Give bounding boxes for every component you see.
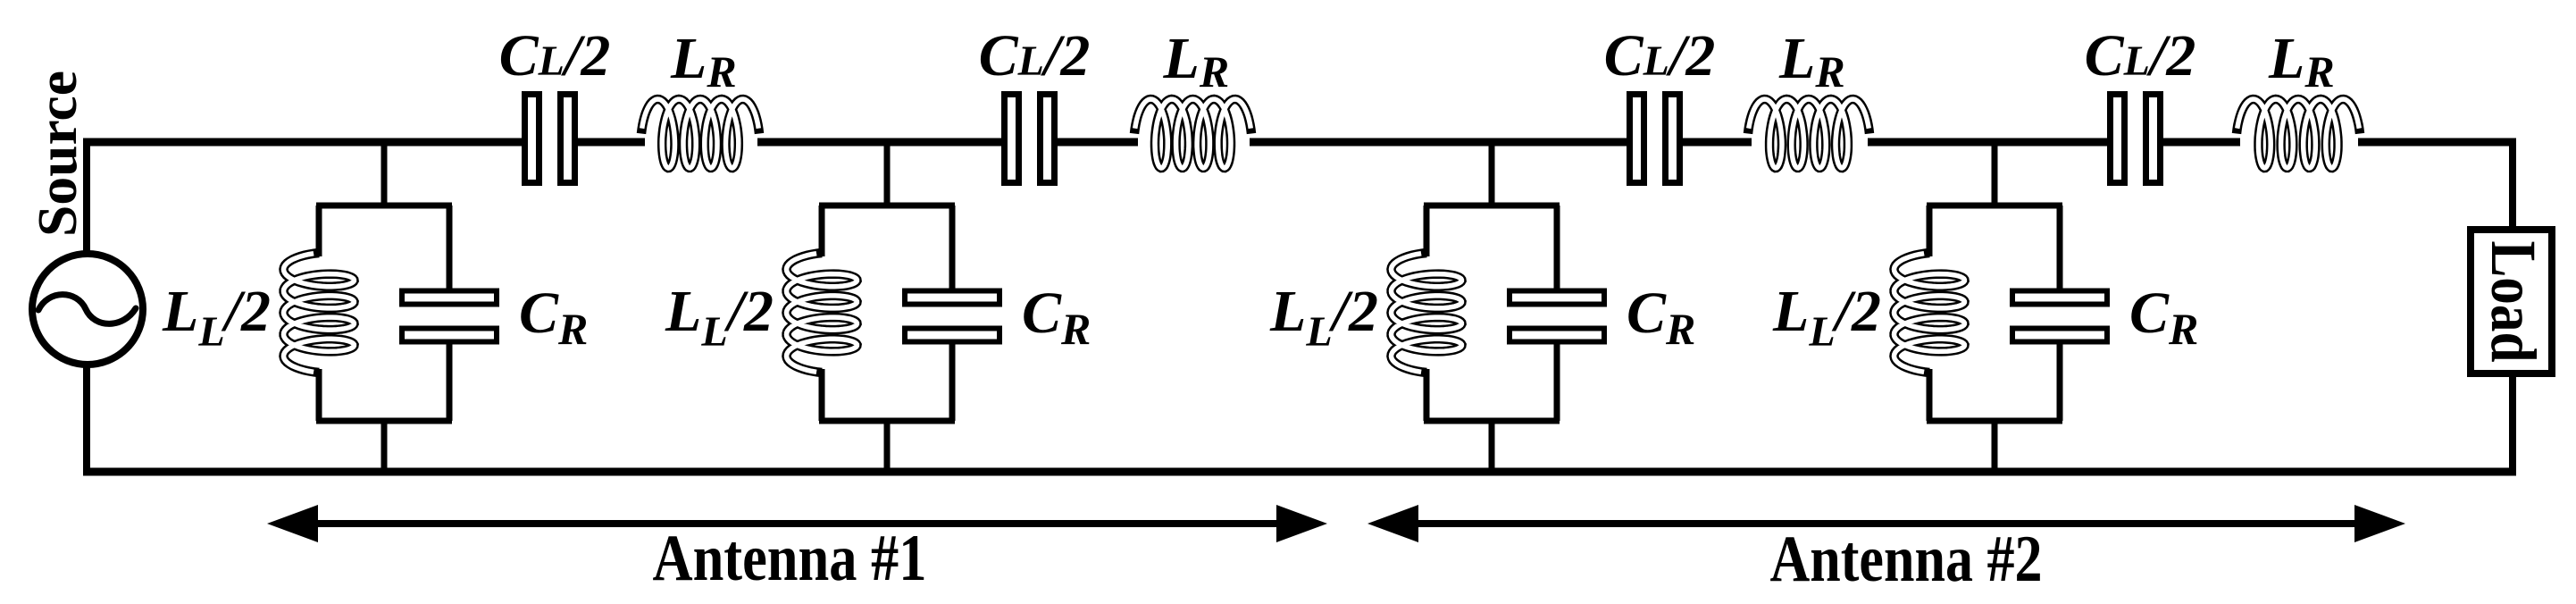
wire tank loop frame 4 (1927, 206, 2062, 421)
wire bottom rail (83, 468, 2516, 476)
inductor LL/2 #3 (1392, 253, 1462, 373)
label LR #1 (670, 26, 737, 96)
label Antenna #1 (653, 522, 927, 595)
svg-text:LR: LR (1778, 26, 1845, 96)
capacitor CL/2 #4 (2111, 95, 2161, 183)
capacitor CR #3 (1510, 291, 1604, 342)
svg-text:Load: Load (2478, 241, 2549, 363)
label LR #4 (2268, 26, 2335, 96)
wire source top lead (83, 138, 90, 255)
wire top rail segment 7 (1868, 138, 2109, 147)
wire top rail segment 1 (83, 138, 523, 147)
inductor LR #4 (2237, 99, 2360, 168)
label CR #2 (1022, 281, 1091, 354)
label CL/2 #4 (2085, 23, 2196, 88)
label CR #4 (2129, 281, 2198, 354)
wire top rail segment 5 (1250, 138, 1628, 147)
svg-text:CL/2: CL/2 (1604, 23, 1716, 88)
inductor LR #1 (641, 99, 759, 168)
wire load top lead (2509, 138, 2516, 231)
wire load bottom lead (2509, 376, 2516, 472)
svg-text:Source: Source (28, 71, 88, 237)
label CR #1 (519, 281, 588, 354)
svg-text:LL/2: LL/2 (1772, 279, 1881, 356)
svg-text:LR: LR (1163, 26, 1230, 96)
wire shunt stub bottom 2 (884, 418, 891, 472)
wire shunt stub bottom 4 (1992, 418, 1998, 472)
wire shunt stub top 2 (884, 142, 891, 208)
wire top rail segment 4 (1057, 138, 1138, 147)
label LL/2 #2 (665, 279, 774, 356)
inductor LR #3 (1748, 99, 1869, 168)
wire top rail segment 9 (2358, 138, 2516, 147)
wire tank loop frame 3 (1424, 206, 1560, 421)
inductor LL/2 #4 (1894, 253, 1965, 373)
wire tank loop frame 2 (819, 206, 955, 421)
inductor LR #2 (1134, 99, 1251, 168)
AC source (Source) (32, 254, 143, 365)
svg-text:CR: CR (519, 281, 588, 354)
wire shunt stub top 1 (381, 142, 388, 208)
label Antenna #2 (1770, 523, 2043, 596)
label LL/2 #3 (1269, 279, 1378, 356)
svg-text:LL/2: LL/2 (1269, 279, 1378, 356)
svg-text:CL/2: CL/2 (2085, 23, 2196, 88)
label LR #2 (1163, 26, 1230, 96)
svg-text:LL/2: LL/2 (162, 279, 271, 356)
wire tank loop frame 1 (316, 206, 452, 421)
svg-text:CR: CR (2129, 281, 2198, 354)
svg-text:CL/2: CL/2 (499, 23, 611, 88)
label Source (28, 71, 88, 237)
svg-text:Antenna #1: Antenna #1 (653, 522, 927, 595)
wire top rail segment 2 (576, 138, 645, 147)
capacitor CR #2 (905, 291, 999, 342)
svg-text:LR: LR (670, 26, 737, 96)
wire top rail segment 8 (2161, 138, 2240, 147)
capacitor CL/2 #1 (525, 95, 575, 183)
capacitor CL/2 #2 (1005, 95, 1055, 183)
wire shunt stub top 4 (1992, 142, 1998, 208)
svg-text:LR: LR (2268, 26, 2335, 96)
wire shunt stub bottom 1 (381, 418, 388, 472)
capacitor CR #1 (402, 291, 497, 342)
svg-text:LL/2: LL/2 (665, 279, 774, 356)
capacitor CR #4 (2012, 291, 2107, 342)
label LL/2 #1 (162, 279, 271, 356)
label CR #3 (1627, 281, 1695, 354)
wire source bottom lead (83, 365, 90, 472)
label CL/2 #1 (499, 23, 611, 88)
svg-text:CR: CR (1022, 281, 1091, 354)
wire top rail segment 6 (1682, 138, 1752, 147)
label LL/2 #4 (1772, 279, 1881, 356)
inductor LL/2 #2 (787, 253, 857, 373)
svg-text:Antenna #2: Antenna #2 (1770, 523, 2043, 596)
arrow Antenna #1 span (267, 505, 1327, 542)
arrow Antenna #2 span (1367, 505, 2405, 542)
svg-text:CL/2: CL/2 (979, 23, 1091, 88)
capacitor CL/2 #3 (1630, 95, 1680, 183)
wire shunt stub top 3 (1489, 142, 1495, 208)
inductor LL/2 #1 (284, 253, 355, 373)
load RL (2471, 230, 2552, 373)
label CL/2 #2 (979, 23, 1091, 88)
wire shunt stub bottom 3 (1489, 418, 1495, 472)
wire top rail segment 3 (757, 138, 1003, 147)
label CL/2 #3 (1604, 23, 1716, 88)
label LR #3 (1778, 26, 1845, 96)
svg-text:CR: CR (1627, 281, 1695, 354)
